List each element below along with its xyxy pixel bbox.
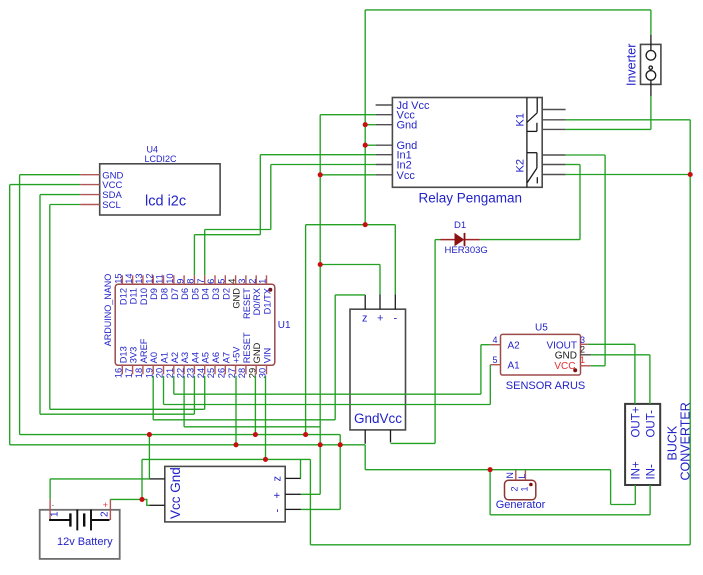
- svg-text:12v Battery: 12v Battery: [57, 536, 113, 548]
- svg-text:3: 3: [237, 279, 247, 284]
- arduino origin dot: [268, 288, 272, 292]
- svg-text:9: 9: [175, 279, 185, 284]
- relay right pin stub y=109.5: [542, 109, 565, 111]
- svg-text:2: 2: [580, 345, 585, 355]
- VccGnd left pin stub 2: [149, 504, 165, 506]
- svg-text:A2: A2: [170, 352, 180, 363]
- buck converter body: [625, 404, 660, 485]
- wire K2 top horiz: [566, 154, 606, 156]
- wire buck IN- vert: [649, 485, 651, 515]
- svg-text:+: +: [377, 313, 383, 325]
- junction gnd y225: [363, 222, 368, 227]
- wire vert x365 relay gnd: [364, 10, 366, 225]
- junction relay gnd: [363, 122, 368, 127]
- arduino bottom pin stub 23: [193, 365, 195, 374]
- wire GndVcc pin1 vert: [364, 445, 366, 470]
- svg-text:-: -: [393, 313, 397, 325]
- wire D4 jog vert: [270, 165, 272, 230]
- wire vert x305: [305, 225, 307, 435]
- GndVcc bottom pin stub 2: [390, 430, 392, 443]
- svg-text:3V3: 3V3: [129, 347, 139, 364]
- VccGnd right pin stub z: [285, 477, 301, 479]
- wire vert x435: [434, 240, 436, 444]
- wire relay Gnd2 tap: [365, 144, 375, 146]
- GndVcc top pin stub -: [394, 294, 396, 309]
- sensor U5 body: [501, 334, 581, 375]
- VccGnd left pin stub 1: [149, 478, 165, 480]
- VccGnd module body: [165, 466, 285, 522]
- wire scl horiz y409: [50, 408, 205, 410]
- svg-text:4: 4: [227, 279, 237, 284]
- relay left pin stub In2: [376, 164, 393, 166]
- svg-text:RESET: RESET: [242, 288, 252, 319]
- wire buck OUT+ vert: [634, 344, 636, 404]
- svg-text:11: 11: [155, 274, 165, 284]
- generator pin stub L: [524, 470, 526, 481]
- relay left pin stub Vcc: [376, 174, 393, 176]
- lcd pin stub VCC: [80, 184, 100, 186]
- svg-text:25: 25: [206, 368, 216, 378]
- arduino bottom pin stub 20: [163, 365, 165, 374]
- wire K2 mid horiz: [566, 164, 580, 166]
- wire A4 vert: [193, 376, 195, 414]
- relay contact K1: [527, 98, 537, 132]
- relay left pin stub Vcc: [376, 114, 393, 116]
- inverter circle bottom: [646, 71, 656, 81]
- wire K1 NC horiz: [566, 128, 651, 130]
- svg-text:VCC: VCC: [554, 361, 575, 372]
- sensor pin stub VCC: [581, 365, 591, 367]
- VccGnd right pin stub +: [285, 493, 301, 495]
- wire horiz y459: [142, 458, 310, 460]
- svg-text:A0: A0: [149, 352, 159, 363]
- sensor pin stub A1: [490, 364, 500, 366]
- wire relay Vcc tap: [320, 114, 375, 116]
- svg-text:HER303G: HER303G: [445, 245, 488, 256]
- svg-text:27: 27: [227, 368, 237, 378]
- wire A3 vert: [183, 376, 185, 427]
- junction relay vcc2: [318, 172, 323, 177]
- wire battery pin1 horiz: [50, 478, 149, 480]
- wire lcd SCL horiz: [50, 204, 80, 206]
- svg-text:Generator: Generator: [496, 499, 546, 511]
- svg-text:Vcc: Vcc: [397, 170, 416, 182]
- svg-text:D5: D5: [190, 288, 200, 300]
- junction vcc x340: [338, 442, 343, 447]
- relay left pin stub Gnd: [376, 124, 393, 126]
- lcd pin stub GND: [80, 174, 100, 176]
- wire lcd GND vert: [19, 175, 21, 435]
- wire A1 horiz y404: [164, 404, 491, 406]
- svg-text:K1: K1: [515, 113, 527, 126]
- inverter circle top: [646, 51, 656, 61]
- wire sensor VCC tap: [591, 365, 605, 367]
- svg-text:OUT+: OUT+: [631, 406, 643, 437]
- svg-text:Inverter: Inverter: [625, 44, 639, 86]
- wire diode cathode horiz: [480, 239, 580, 241]
- svg-text:D9: D9: [149, 288, 159, 300]
- svg-text:U1: U1: [278, 320, 291, 331]
- wire vert x605: [604, 155, 606, 366]
- svg-text:L: L: [517, 474, 527, 479]
- svg-text:D13: D13: [118, 346, 128, 363]
- wire to VccGnd minus pin: [301, 508, 340, 510]
- svg-text:12: 12: [144, 273, 154, 283]
- svg-text:-: -: [52, 501, 55, 510]
- inverter bottom lead: [650, 80, 652, 96]
- svg-text:AREF: AREF: [139, 338, 149, 363]
- wire vcc bus horiz y445: [10, 444, 366, 446]
- svg-text:5: 5: [217, 279, 227, 284]
- svg-text:+: +: [103, 500, 108, 510]
- svg-text:A3: A3: [180, 352, 190, 363]
- wire sensor A2 tap: [481, 344, 490, 346]
- svg-text:1: 1: [258, 279, 268, 284]
- wire VIOUT horiz: [588, 343, 635, 345]
- wire inverter bottom vert: [650, 96, 652, 129]
- wire battery pin1 vert: [49, 479, 51, 499]
- svg-text:7: 7: [196, 279, 206, 284]
- svg-text:13: 13: [134, 273, 144, 283]
- svg-text:28: 28: [237, 368, 247, 378]
- arduino top pin stub 6: [214, 275, 216, 284]
- svg-text:BUCK: BUCK: [666, 425, 680, 460]
- wire gnd bus horiz y434: [20, 434, 341, 436]
- arduino bottom pin stub 26: [224, 365, 226, 374]
- wire K2 bottom horiz: [566, 174, 691, 176]
- generator body: [505, 480, 536, 500]
- svg-text:N: N: [505, 472, 515, 479]
- svg-text:A1: A1: [160, 352, 170, 363]
- generator pin stub N: [515, 470, 517, 481]
- svg-text:14: 14: [124, 273, 134, 283]
- arduino top pin stub 4: [235, 275, 237, 284]
- arduino top pin stub 8: [193, 275, 195, 284]
- arduino top pin stub 5: [224, 275, 226, 284]
- svg-text:SCL: SCL: [102, 200, 120, 211]
- wire vert x490: [489, 470, 491, 515]
- GndVcc top pin stub z: [364, 295, 366, 309]
- wire A3 horiz y427: [184, 426, 320, 428]
- battery body: [40, 510, 120, 559]
- wire lcd VCC vert: [9, 185, 11, 445]
- wire D5 jog vert: [259, 155, 261, 235]
- relay right pin stub y=164.5: [542, 164, 565, 166]
- wire In1 horiz: [260, 154, 375, 156]
- svg-text:D4: D4: [201, 288, 211, 300]
- wire z top horiz: [335, 294, 365, 296]
- svg-text:D8: D8: [160, 288, 170, 300]
- arduino bottom pin stub 18: [142, 365, 144, 374]
- svg-text:A1: A1: [508, 361, 521, 372]
- wire A1 vert: [163, 376, 165, 405]
- svg-text:lcd i2c: lcd i2c: [145, 194, 186, 210]
- arduino top pin stub 15: [121, 275, 123, 284]
- wire right edge vert x690: [689, 120, 691, 545]
- wire GND29 vert: [254, 376, 256, 435]
- svg-text:16: 16: [114, 368, 124, 378]
- svg-text:D0/RX: D0/RX: [252, 288, 262, 315]
- svg-text:D7: D7: [170, 288, 180, 300]
- svg-text:2: 2: [510, 486, 520, 491]
- wire vert x149: [148, 435, 150, 479]
- arduino bottom pin stub 17: [132, 365, 134, 374]
- svg-text:Gnd: Gnd: [397, 120, 418, 132]
- junction +5V: [233, 442, 238, 447]
- wire buck IN+ vert: [634, 485, 636, 505]
- wire VIN vert: [265, 376, 267, 460]
- junction relay gnd2: [363, 143, 368, 148]
- wire lcd SDA horiz: [40, 194, 80, 196]
- wire A2 vert: [173, 376, 175, 394]
- wire buck IN+ horiz: [611, 504, 636, 506]
- svg-text:+: +: [272, 492, 284, 498]
- sensor pin stub VIOUT: [581, 343, 588, 345]
- svg-text:IN+: IN+: [631, 461, 643, 480]
- wire A0 vert: [152, 376, 154, 420]
- svg-text:LCDI2C: LCDI2C: [145, 154, 178, 164]
- svg-text:30: 30: [258, 368, 268, 378]
- svg-text:15: 15: [114, 273, 124, 283]
- GndVcc top pin stub +: [379, 294, 381, 309]
- arduino bottom pin stub 28: [245, 365, 247, 374]
- lcd module U4 body: [100, 164, 220, 215]
- wire VccGnd plus tap: [301, 493, 320, 495]
- sensor pin stub A2: [490, 344, 500, 346]
- svg-text:z: z: [272, 476, 284, 482]
- arduino bottom pin stub 27: [235, 365, 237, 374]
- wire generator horiz y470: [365, 469, 610, 471]
- wire lcd SCL vert: [49, 205, 51, 410]
- wire z horiz y420: [153, 419, 335, 421]
- svg-text:D12: D12: [118, 288, 128, 305]
- svg-text:A7: A7: [221, 352, 231, 363]
- svg-text:A5: A5: [201, 352, 211, 363]
- svg-text:D6: D6: [180, 288, 190, 300]
- arduino bottom pin stub 30: [266, 365, 268, 374]
- wire horiz y225: [306, 224, 396, 226]
- wire A2 horiz y394: [174, 393, 481, 395]
- arduino bottom pin stub 29: [255, 365, 257, 374]
- wire bottom horiz y545: [310, 544, 690, 546]
- wire diode anode tap: [435, 239, 440, 241]
- wire K1 mid horiz: [566, 119, 691, 121]
- arduino top pin stub 10: [173, 275, 175, 284]
- svg-text:1: 1: [580, 355, 585, 365]
- wire D4 vert: [204, 230, 206, 276]
- arduino top pin stub 9: [183, 275, 185, 284]
- svg-text:A2: A2: [508, 341, 521, 352]
- svg-text:2: 2: [100, 511, 111, 517]
- svg-text:U5: U5: [535, 323, 548, 334]
- arduino top pin stub 14: [132, 275, 134, 284]
- svg-text:D11: D11: [129, 288, 139, 304]
- wire buck OUT- vert: [649, 355, 651, 404]
- wire vert to GndVcc minus: [394, 225, 396, 295]
- svg-text:-: -: [272, 509, 284, 513]
- junction right edge: [688, 172, 693, 177]
- junction gnd x149: [147, 432, 152, 437]
- svg-text:D1/TX: D1/TX: [263, 288, 273, 314]
- wire sensor A1 vert: [489, 365, 491, 405]
- wire GndVcc pin2 horiz: [391, 442, 436, 444]
- arduino top pin stub 2: [255, 275, 257, 284]
- arduino top pin stub 3: [245, 275, 247, 284]
- arduino top pin stub 12: [152, 275, 154, 284]
- svg-text:10: 10: [165, 273, 175, 283]
- arduino bottom pin stub 21: [173, 365, 175, 374]
- svg-text:17: 17: [124, 368, 134, 378]
- svg-text:GndVcc: GndVcc: [354, 411, 402, 426]
- arduino bottom pin stub 19: [152, 365, 154, 374]
- battery pin stub 2: [109, 499, 111, 520]
- relay right pin stub y=119.8: [542, 119, 565, 121]
- junction battery: [139, 497, 144, 502]
- wire IN- horiz y515: [490, 514, 650, 516]
- junction VIN: [263, 457, 268, 462]
- GndVcc module body: [350, 309, 406, 430]
- svg-text:Relay Pengaman: Relay Pengaman: [419, 191, 523, 206]
- lcd pin stub SCL: [80, 204, 100, 206]
- battery cell symbol: [49, 510, 109, 531]
- svg-text:3: 3: [580, 335, 585, 345]
- svg-text:Vcc Gnd: Vcc Gnd: [168, 467, 183, 519]
- svg-text:5: 5: [492, 355, 497, 365]
- svg-text:SENSOR ARUS: SENSOR ARUS: [506, 380, 585, 392]
- relay right pin stub y=155.0: [542, 154, 565, 156]
- wire sensor GND horiz: [591, 354, 650, 356]
- svg-text:GND: GND: [232, 288, 242, 309]
- svg-text:26: 26: [217, 368, 227, 378]
- arduino bottom pin stub 24: [204, 365, 206, 374]
- svg-text:GND: GND: [252, 342, 262, 363]
- svg-text:D3: D3: [211, 288, 221, 300]
- sensor pin stub GND: [581, 354, 591, 356]
- wire +5V vert: [235, 376, 237, 445]
- wire GndVcc plus vert: [379, 265, 381, 295]
- wire vert x310: [309, 459, 311, 544]
- relay left pin stub Gnd: [376, 144, 393, 146]
- GndVcc bottom pin stub 1: [364, 430, 366, 444]
- arduino top pin stub 7: [204, 275, 206, 284]
- svg-text:VIN: VIN: [263, 348, 273, 364]
- svg-text:IN-: IN-: [646, 464, 658, 480]
- junction gnd pin29: [253, 432, 258, 437]
- arduino top pin stub 13: [142, 275, 144, 284]
- wire lcd GND horiz: [20, 174, 81, 176]
- wire vert x580: [579, 165, 581, 240]
- wire relay Vcc2 tap: [320, 174, 375, 176]
- wire VccGnd z vert: [300, 459, 302, 478]
- relay left pin stub Jd Vcc: [376, 104, 393, 106]
- arduino top pin stub 11: [163, 275, 165, 284]
- junction vcc x320: [318, 442, 323, 447]
- svg-text:A4: A4: [190, 352, 200, 363]
- diode D1: [440, 239, 455, 241]
- wire top horiz: [365, 9, 651, 11]
- svg-text:8: 8: [186, 279, 196, 284]
- svg-text:OUT-: OUT-: [646, 410, 658, 438]
- wire relay Gnd tap: [365, 124, 375, 126]
- svg-text:6: 6: [206, 279, 216, 284]
- svg-text:4: 4: [492, 335, 497, 345]
- relay right pin stub y=129.4: [542, 128, 565, 130]
- svg-text:+5V: +5V: [232, 346, 242, 364]
- wire GndVcc plus horiz: [320, 264, 380, 266]
- wire battery pin2 horiz: [110, 498, 142, 500]
- inverter body: [641, 44, 661, 84]
- inverter top lead: [650, 35, 652, 51]
- relay inner divider: [526, 98, 528, 188]
- wire z vert x335: [334, 295, 336, 420]
- junction generator: [488, 467, 493, 472]
- wire vert x340: [339, 435, 341, 510]
- wire In2 horiz: [271, 164, 376, 166]
- arduino U1 body: [115, 284, 275, 365]
- svg-text:ARDUINO_NANO: ARDUINO_NANO: [103, 274, 113, 347]
- svg-text:D2: D2: [221, 288, 231, 300]
- junction gnd x305: [303, 432, 308, 437]
- svg-text:2: 2: [247, 279, 257, 284]
- wire sensor A2 vert: [480, 345, 482, 395]
- inverter small circle: [649, 66, 652, 69]
- svg-text:D10: D10: [139, 288, 149, 305]
- junction gndvcc plus: [318, 262, 323, 267]
- svg-text:z: z: [362, 313, 368, 325]
- svg-text:1: 1: [50, 511, 61, 517]
- wire vert x610: [610, 470, 612, 505]
- arduino bottom pin stub 16: [121, 365, 123, 374]
- wire lcd SDA vert: [39, 195, 41, 415]
- wire A5 vert: [204, 376, 206, 410]
- sensor origin dot: [573, 368, 577, 372]
- lcd pin stub SDA: [80, 194, 100, 196]
- svg-text:18: 18: [134, 368, 144, 378]
- wire D5 vert: [193, 235, 195, 276]
- relay right pin stub y=174.5: [542, 174, 565, 176]
- relay contact K2: [527, 153, 537, 184]
- wire D5 jog horiz: [194, 234, 260, 236]
- svg-text:K2: K2: [515, 159, 527, 172]
- wire vert x142: [141, 459, 143, 499]
- svg-text:RESET: RESET: [242, 332, 252, 363]
- relay left pin stub In1: [376, 154, 393, 156]
- svg-text:1: 1: [519, 486, 529, 491]
- wire inverter top: [650, 10, 652, 35]
- wire lcd VCC horiz: [10, 184, 80, 186]
- svg-text:A6: A6: [211, 352, 221, 363]
- battery pin stub 1: [49, 499, 51, 520]
- wire vert x320 vcc: [319, 115, 321, 495]
- wire D4 jog horiz: [205, 229, 271, 231]
- wire sda horiz y414: [40, 413, 194, 415]
- VccGnd right pin stub -: [285, 508, 301, 510]
- generator origin dot: [529, 483, 533, 487]
- arduino bottom pin stub 25: [214, 365, 216, 374]
- svg-text:D1: D1: [454, 220, 466, 231]
- relay module body: [392, 98, 542, 188]
- arduino top pin stub 1: [266, 275, 268, 284]
- arduino bottom pin stub 22: [183, 365, 185, 374]
